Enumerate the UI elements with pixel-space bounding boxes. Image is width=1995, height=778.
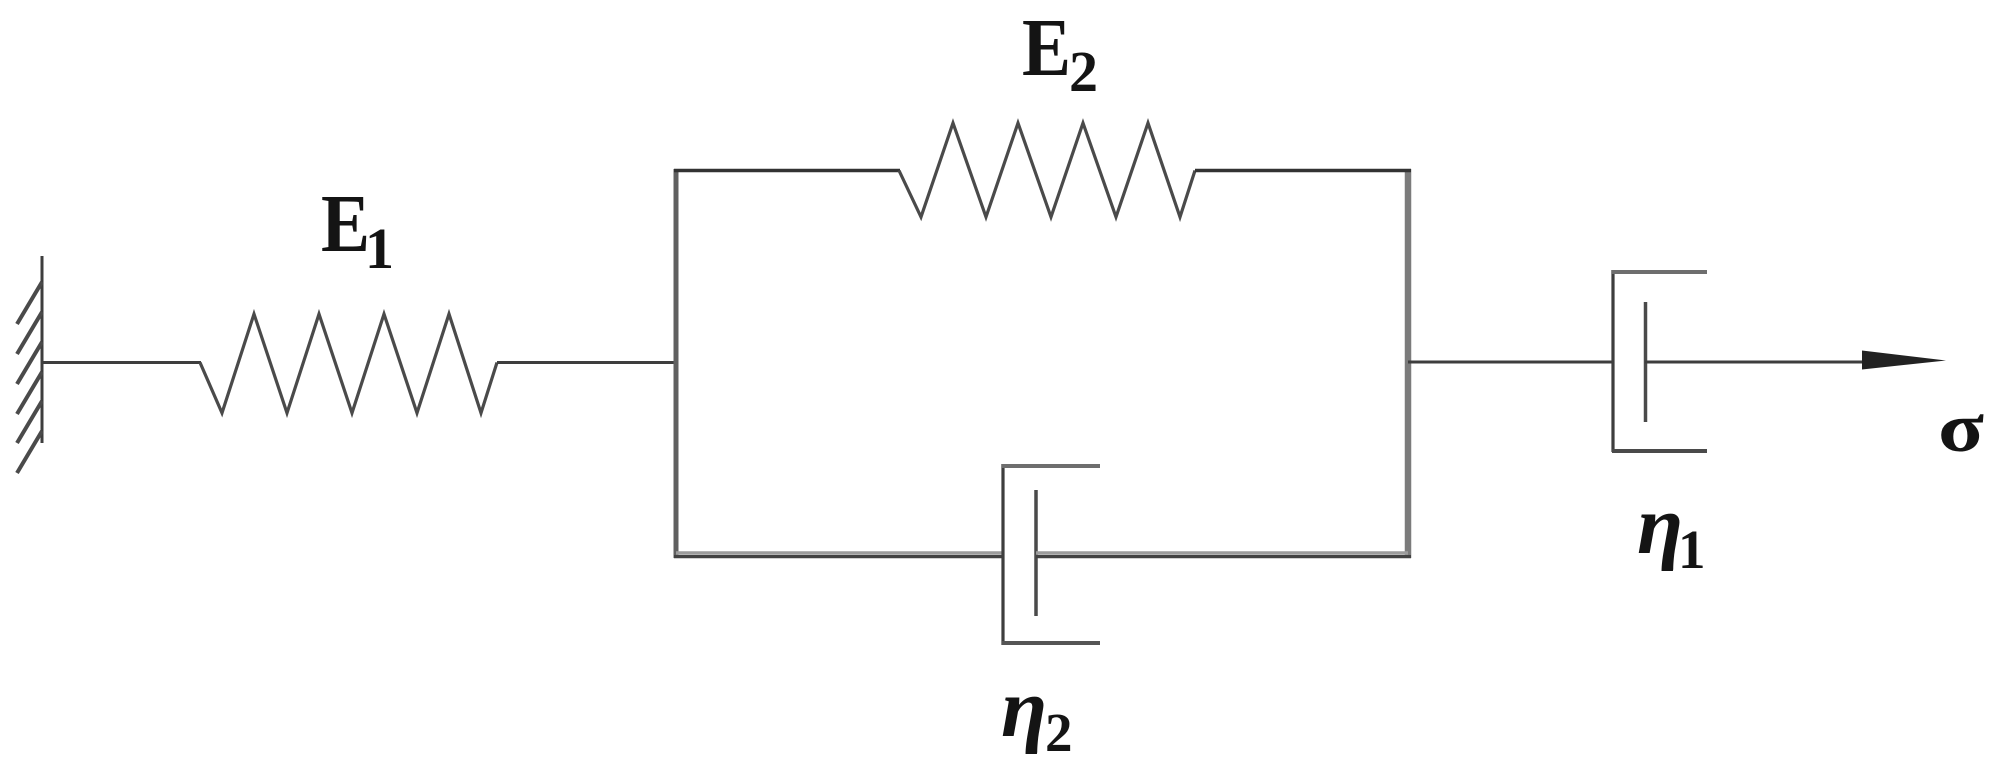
dashpot eta1 piston plate bbox=[1644, 302, 1648, 422]
wire spring E1 to parallel box bbox=[497, 361, 678, 364]
spring E1 bbox=[200, 314, 497, 413]
wire wall to spring E1 bbox=[42, 361, 201, 364]
dashpot eta1 cup left wall bbox=[1611, 270, 1614, 452]
wire box to dashpot eta1 bbox=[1408, 361, 1613, 364]
dashpot eta2 piston plate bbox=[1034, 490, 1038, 616]
box top wire left segment bbox=[674, 169, 900, 173]
dashpot eta1 cup bottom plate bbox=[1612, 449, 1707, 453]
wall hatch 5 bbox=[17, 401, 42, 443]
dashpot eta2 cup top plate bbox=[1002, 464, 1100, 468]
dashpot eta2 cup left wall bbox=[1001, 464, 1004, 645]
svg-text:1: 1 bbox=[1678, 519, 1706, 580]
wall hatch 2 bbox=[17, 312, 42, 354]
dashpot eta1 cup top plate bbox=[1612, 270, 1707, 274]
svg-text:1: 1 bbox=[365, 216, 394, 281]
svg-text:η: η bbox=[1001, 662, 1047, 755]
box bottom wire right segment (dark lower stroke) bbox=[1036, 555, 1411, 558]
piston rod / arrow shaft bbox=[1645, 361, 1900, 364]
wall hatch 4 bbox=[17, 372, 42, 414]
fixed wall vertical line bbox=[41, 256, 44, 443]
wall hatch 1 bbox=[17, 282, 42, 324]
wall hatch 3 bbox=[17, 342, 42, 384]
dashpot eta2 cup bottom plate bbox=[1002, 641, 1100, 645]
parallel box left vertical bbox=[674, 169, 679, 558]
svg-text:E: E bbox=[1022, 1, 1071, 93]
svg-text:E: E bbox=[321, 177, 370, 269]
parallel box right vertical bbox=[1405, 169, 1412, 558]
spring E2 bbox=[899, 123, 1195, 217]
svg-text:σ: σ bbox=[1938, 390, 1984, 467]
wall hatch 6 bbox=[17, 431, 42, 473]
svg-text:2: 2 bbox=[1045, 702, 1073, 763]
box bottom wire right segment (light upper stroke) bbox=[1036, 551, 1408, 555]
arrowhead bbox=[1862, 351, 1946, 370]
box top wire right segment bbox=[1195, 169, 1411, 173]
svg-text:η: η bbox=[1637, 479, 1683, 572]
box bottom wire left segment (dark lower stroke) bbox=[674, 555, 1004, 558]
box bottom wire left segment (light upper stroke) bbox=[676, 551, 1004, 555]
svg-text:2: 2 bbox=[1069, 39, 1098, 104]
